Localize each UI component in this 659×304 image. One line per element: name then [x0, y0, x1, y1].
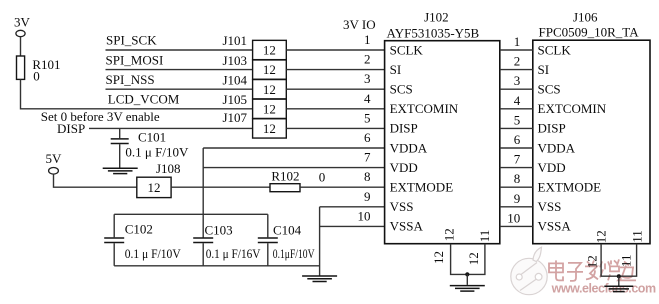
- J106 pin 4 EXTCOMIN: [500, 93, 607, 116]
- J106 pin 9 VSS: [500, 191, 562, 214]
- svg-text:J105: J105: [222, 92, 247, 107]
- svg-text:12: 12: [594, 230, 609, 243]
- svg-text:4: 4: [514, 93, 521, 108]
- svg-text:VSS: VSS: [538, 199, 562, 214]
- wire capacitor bottom rail: [114, 265, 319, 267]
- svg-text:VSSA: VSSA: [390, 219, 424, 234]
- wire junction to ground: [466, 274, 468, 285]
- jumper J104: [222, 72, 286, 98]
- wire capacitor top rail: [114, 213, 268, 215]
- svg-text:DISP: DISP: [57, 121, 85, 136]
- svg-text:C101: C101: [138, 130, 166, 145]
- svg-text:SI: SI: [538, 62, 550, 77]
- svg-text:11: 11: [618, 255, 633, 268]
- svg-text:VDDA: VDDA: [538, 140, 576, 155]
- J106 pin 3 SCS: [500, 73, 561, 96]
- svg-text:7: 7: [364, 150, 371, 165]
- svg-text:5V: 5V: [46, 151, 63, 166]
- jumper J103: [222, 53, 286, 79]
- svg-text:VSS: VSS: [390, 199, 414, 214]
- wire J108 to R102: [171, 186, 270, 188]
- svg-text:J107: J107: [222, 110, 247, 125]
- capacitor C104: [258, 214, 315, 265]
- jumper J105: [222, 92, 286, 118]
- svg-text:6: 6: [364, 130, 371, 145]
- svg-text:SCS: SCS: [538, 82, 561, 97]
- wire J104 to J102 pin3: [286, 88, 384, 90]
- wire 5V to J108: [54, 174, 137, 187]
- J102 pin 7 VDD: [364, 150, 418, 175]
- wire R101 to LCD_VCOM net: [21, 79, 253, 108]
- svg-text:9: 9: [514, 191, 521, 206]
- J102 pin 2 SI: [364, 52, 401, 77]
- svg-text:FPC0509_10R_TA: FPC0509_10R_TA: [539, 25, 640, 40]
- svg-text:6: 6: [514, 132, 521, 147]
- svg-text:12: 12: [442, 228, 457, 241]
- svg-text:J108: J108: [156, 161, 181, 176]
- svg-text:SCLK: SCLK: [390, 42, 424, 57]
- ground C101: [103, 168, 138, 173]
- svg-text:8: 8: [514, 171, 521, 186]
- svg-text:J101: J101: [222, 33, 247, 48]
- svg-text:SPI_NSS: SPI_NSS: [106, 72, 155, 87]
- J102 pin 9 VSS: [364, 189, 413, 214]
- J102 pin 4 EXTCOMIN: [364, 91, 459, 116]
- svg-text:10: 10: [507, 210, 520, 225]
- svg-text:VSSA: VSSA: [538, 219, 572, 234]
- svg-text:3V IO: 3V IO: [343, 17, 376, 32]
- wire J103 to J102 pin2: [286, 69, 384, 71]
- svg-text:1: 1: [514, 34, 521, 49]
- wire VDD pin7: [203, 167, 384, 169]
- J102 pin 3 SCS: [364, 71, 413, 96]
- svg-text:EXTMODE: EXTMODE: [538, 180, 602, 195]
- svg-text:12: 12: [431, 251, 446, 264]
- svg-text:3: 3: [364, 71, 371, 86]
- svg-text:VDD: VDD: [390, 160, 418, 175]
- J106 pin 2 SI: [500, 54, 549, 77]
- svg-text:SI: SI: [390, 62, 402, 77]
- svg-text:SPI_SCK: SPI_SCK: [106, 33, 157, 48]
- svg-text:EXTMODE: EXTMODE: [390, 180, 454, 195]
- svg-text:www.elecfans.com: www.elecfans.com: [551, 282, 657, 296]
- svg-text:11: 11: [477, 230, 492, 243]
- svg-text:12: 12: [585, 255, 600, 268]
- svg-text:2: 2: [364, 52, 371, 67]
- svg-text:5: 5: [514, 112, 521, 127]
- wire SPI_NSS: [106, 88, 253, 90]
- junction J102 ground: [465, 272, 469, 276]
- svg-text:SPI_MOSI: SPI_MOSI: [106, 52, 164, 67]
- svg-text:9: 9: [364, 189, 371, 204]
- svg-text:R102: R102: [271, 169, 299, 184]
- wire J106 junction to ground: [618, 276, 620, 285]
- svg-text:J104: J104: [222, 72, 247, 87]
- jumper J108: [137, 161, 181, 197]
- jumper J107: [222, 110, 286, 138]
- svg-text:0.1μF/10V: 0.1μF/10V: [273, 248, 315, 262]
- svg-text:10: 10: [358, 208, 371, 223]
- svg-text:DISP: DISP: [538, 121, 566, 136]
- wire J102 pins 12/11 to ground: [451, 244, 485, 275]
- ground filter caps: [302, 276, 337, 282]
- J106 pin 5 DISP: [500, 112, 566, 135]
- J106 pin 6 VDDA: [500, 132, 576, 155]
- connector J106: [533, 10, 650, 244]
- wire DISP: [89, 127, 253, 129]
- svg-text:12: 12: [263, 121, 276, 136]
- svg-text:12: 12: [148, 180, 161, 195]
- resistor R101: [17, 56, 61, 84]
- svg-text:3V: 3V: [14, 15, 31, 30]
- wire VDDA pin6: [203, 147, 384, 149]
- watermark logo: [511, 247, 547, 294]
- power flag 3V: [14, 15, 31, 37]
- wire VSSA pin10: [320, 225, 385, 227]
- svg-text:12: 12: [263, 82, 276, 97]
- svg-text:4: 4: [364, 91, 371, 106]
- jumper J101: [222, 33, 286, 59]
- svg-text:12: 12: [466, 252, 481, 265]
- capacitor C102: [104, 214, 181, 265]
- J106 pin 1 SCLK: [500, 34, 572, 57]
- wire VSS pin9: [320, 206, 385, 208]
- resistor R102: [270, 169, 325, 192]
- wire SPI_SCK: [106, 49, 253, 51]
- svg-text:5: 5: [364, 110, 371, 125]
- svg-text:DISP: DISP: [390, 121, 418, 136]
- J106 pin 8 EXTMODE: [500, 171, 601, 194]
- wire J101 to J102 pin1: [286, 49, 384, 51]
- svg-text:11: 11: [630, 230, 645, 243]
- svg-text:EXTCOMIN: EXTCOMIN: [390, 101, 459, 116]
- wire J107 to J102 pin5: [286, 127, 384, 129]
- svg-text:0: 0: [319, 170, 326, 185]
- svg-text:SCLK: SCLK: [538, 42, 572, 57]
- ground J102: [450, 286, 485, 292]
- svg-text:C104: C104: [273, 223, 302, 238]
- J102 pin 6 VDDA: [364, 130, 428, 155]
- junction J106 ground: [617, 274, 621, 278]
- wire 5V bus vertical: [202, 148, 204, 238]
- wire SPI_MOSI: [106, 69, 253, 71]
- J106 pin 7 VDD: [500, 152, 566, 175]
- J106 pin 10 VSSA: [500, 210, 572, 233]
- svg-text:7: 7: [514, 152, 521, 167]
- watermark text 电子发烧友: [550, 261, 637, 283]
- svg-text:VDD: VDD: [538, 160, 566, 175]
- power flag 5V: [46, 151, 63, 174]
- capacitor C103: [193, 223, 260, 266]
- svg-text:EXTCOMIN: EXTCOMIN: [538, 101, 607, 116]
- J102 pin 1 SCLK: [364, 32, 423, 57]
- capacitor C101: [111, 128, 189, 167]
- connector J102: [385, 10, 500, 244]
- svg-text:C103: C103: [205, 223, 233, 238]
- svg-text:0.1 μ F/16V: 0.1 μ F/16V: [206, 246, 261, 261]
- wire J105 to J102 pin4: [286, 108, 384, 110]
- wire J106 pins 12/11 to ground: [601, 244, 637, 277]
- svg-text:12: 12: [263, 101, 276, 116]
- svg-text:0: 0: [33, 69, 40, 84]
- svg-text:0.1 μ F/10V: 0.1 μ F/10V: [125, 246, 181, 261]
- wire VSS vertical to ground: [319, 207, 321, 276]
- wire 3V to R101: [20, 37, 22, 56]
- svg-text:SCS: SCS: [390, 82, 413, 97]
- svg-text:1: 1: [364, 32, 371, 47]
- svg-text:VDDA: VDDA: [390, 140, 428, 155]
- wire R102 to J102 pin8: [300, 186, 385, 188]
- svg-text:J102: J102: [424, 10, 449, 25]
- svg-text:0.1 μ F/10V: 0.1 μ F/10V: [125, 144, 189, 159]
- svg-text:J106: J106: [573, 10, 598, 25]
- svg-text:12: 12: [263, 43, 276, 58]
- svg-text:AYF531035-Y5B: AYF531035-Y5B: [387, 25, 480, 40]
- J102 pin 8 EXTMODE: [364, 169, 453, 194]
- ground J106: [604, 286, 633, 291]
- svg-text:J103: J103: [222, 53, 247, 68]
- svg-text:12: 12: [263, 62, 276, 77]
- svg-text:3: 3: [514, 73, 521, 88]
- svg-text:LCD_VCOM: LCD_VCOM: [108, 92, 180, 107]
- J102 pin 10 VSSA: [358, 208, 424, 233]
- svg-text:8: 8: [364, 169, 371, 184]
- svg-text:2: 2: [514, 54, 521, 69]
- svg-text:C102: C102: [125, 222, 153, 237]
- J102 pin 5 DISP: [364, 110, 418, 135]
